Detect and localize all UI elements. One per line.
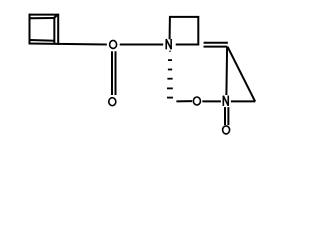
azetidine ring right edge [197,16,199,45]
azetidine ring bottom edge [176,44,199,46]
atom label O ester [110,40,117,48]
stereo hash dash 1 [169,50,171,52]
cyclobutene ring left edge bond [29,14,31,44]
atom label O nitrite [193,97,200,105]
stereo hash dash 2 [168,59,172,61]
atom label N azetidine [166,39,171,49]
aziridine horizontal bond CH2 to N [231,100,255,102]
double bond inner line right edge [53,17,55,44]
carbonyl double bond parallel line [115,51,117,95]
double bond corner tick [54,15,57,18]
atom label N nitro [223,96,228,106]
bond ester O to azetidine N [120,44,164,46]
bond nitrite O to nitro N [202,100,221,102]
atom label O nitro terminal [223,126,230,134]
ring bottom edge continuing as bond to ester O [29,43,107,46]
aziridine diagonal bond C to CH2 [228,47,256,102]
stereo hash dash 5 [167,87,173,89]
azetidine ring left edge [169,17,171,39]
double bond inner line bottom edge [30,39,54,42]
double bond inner line top edge [30,17,54,19]
exocyclic methylene double bond parallel line [204,42,228,44]
exocyclic methylene double bond main line [204,46,228,48]
N-oxide double bond main line [224,107,226,125]
N-oxide double bond parallel line [227,107,229,125]
atom label O carbonyl [109,98,116,106]
bond hashed CH2 to nitrite O [176,100,192,102]
stereo hash dash 4 [167,78,172,80]
stereo hash dash 6 [167,97,173,99]
aziridine vertical bond C to N [225,47,228,95]
cyclobutene ring right edge bond [57,14,59,45]
cyclobutene ring top edge bond [29,14,59,16]
azetidine ring top edge [169,16,199,18]
carbonyl double bond main line [111,51,113,95]
stereo hash dash 3 [168,69,172,71]
